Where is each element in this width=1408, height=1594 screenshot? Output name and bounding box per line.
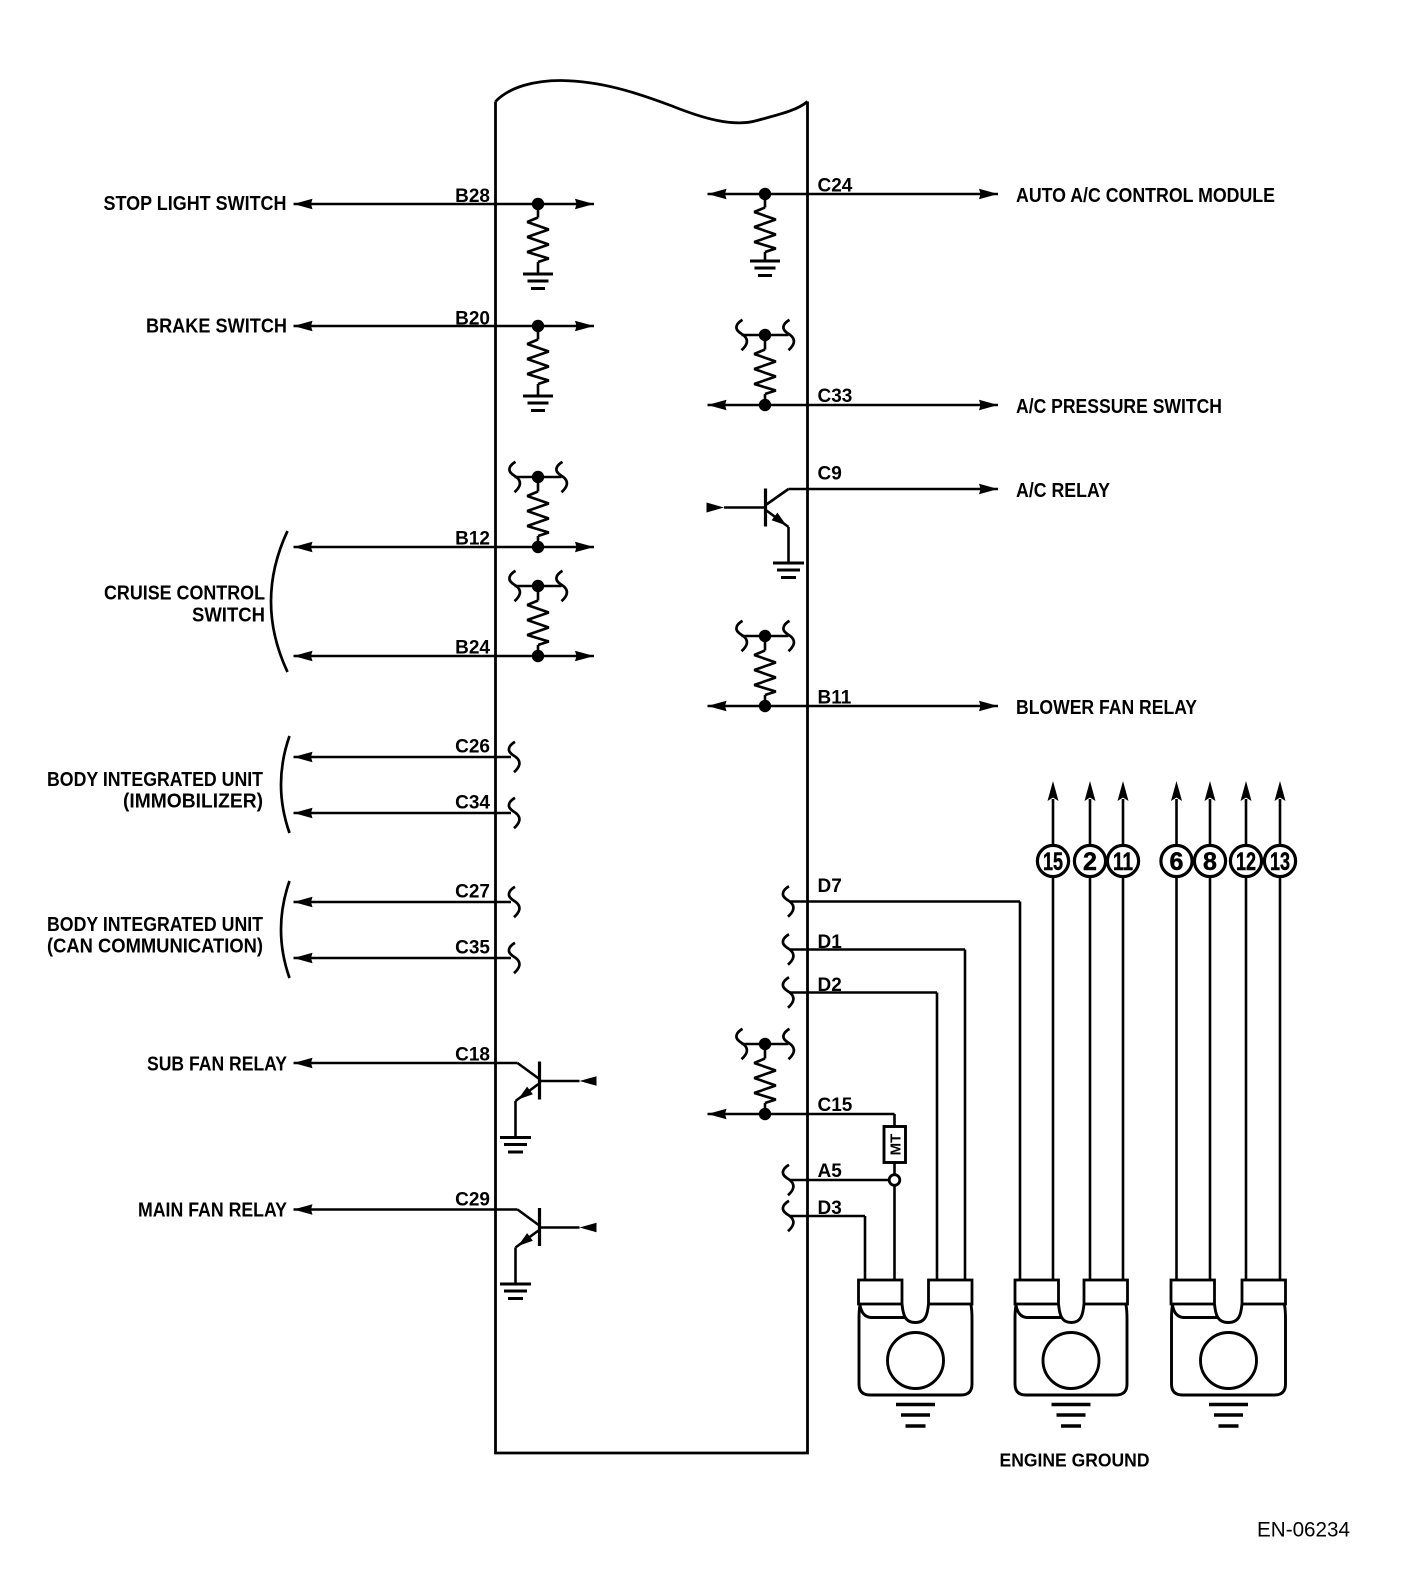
pin label D7 — [818, 876, 842, 897]
pin label C33 — [818, 386, 853, 407]
wire pin C18 (SUB FAN RELAY) — [294, 1058, 518, 1068]
wire pin D3 to engine ground — [790, 1216, 866, 1281]
junction node B28 — [532, 198, 544, 210]
svg-text:C9: C9 — [818, 464, 842, 485]
wire pin C26 — [294, 752, 512, 762]
wire pin C34 — [294, 808, 512, 818]
figure number EN-06234 — [1257, 1519, 1350, 1542]
pin label D1 — [818, 932, 843, 953]
brace immobilizer — [281, 736, 290, 833]
net arrow and circled number 2 — [1074, 781, 1105, 1281]
ECM module boundary box — [496, 81, 808, 1454]
off-page connector pigtail above B24 — [509, 571, 566, 601]
pin label C24 — [818, 176, 853, 197]
brace for cruise control switch — [271, 531, 288, 672]
wire MT box to A5 node — [893, 1163, 896, 1175]
off-page connector pigtail above C33 — [736, 320, 793, 350]
engine ground lug middle: wire terminal caps — [1015, 1280, 1128, 1304]
svg-text:CRUISE CONTROL: CRUISE CONTROL — [104, 583, 265, 605]
ground symbol under lug right — [1209, 1405, 1248, 1427]
svg-text:C29: C29 — [455, 1190, 490, 1211]
pin label B24 — [455, 638, 490, 659]
svg-text:(IMMOBILIZER): (IMMOBILIZER) — [123, 791, 263, 813]
break symbol A5 — [783, 1165, 793, 1195]
wire pin C27 — [294, 897, 512, 907]
svg-text:C18: C18 — [455, 1045, 490, 1066]
pin label C27 — [455, 882, 490, 903]
svg-text:D2: D2 — [818, 975, 842, 996]
label BRAKE SWITCH — [146, 316, 287, 338]
svg-text:A/C RELAY: A/C RELAY — [1016, 480, 1111, 502]
svg-text:B28: B28 — [455, 186, 490, 207]
ground at C9 emitter — [773, 563, 804, 578]
transistor Q-C29 — [515, 1208, 596, 1283]
MT (manual transmission) condition box — [884, 1127, 906, 1163]
svg-text:6: 6 — [1170, 848, 1184, 876]
svg-text:BRAKE SWITCH: BRAKE SWITCH — [146, 316, 287, 338]
svg-text:D1: D1 — [818, 932, 843, 953]
resistor above C15 — [754, 1044, 776, 1114]
svg-text:A/C PRESSURE SWITCH: A/C PRESSURE SWITCH — [1016, 396, 1222, 418]
ground symbol under lug left — [896, 1405, 935, 1427]
resistor above B24 — [527, 586, 549, 656]
wire pin B11 (BLOWER FAN RELAY) — [708, 701, 999, 711]
label BODY INTEGRATED UNIT (IMMOBILIZER) — [47, 769, 263, 813]
label A/C PRESSURE SWITCH — [1016, 396, 1222, 418]
break symbol D1 — [783, 934, 793, 964]
svg-text:ENGINE GROUND: ENGINE GROUND — [1000, 1451, 1150, 1471]
junction node C15 — [759, 1108, 771, 1120]
resistor above C33 — [754, 335, 776, 405]
off-page connector pigtail above C15 — [736, 1029, 793, 1059]
wire pin C29 (MAIN FAN RELAY) — [294, 1204, 518, 1214]
pin label B11 — [818, 688, 852, 709]
label SUB FAN RELAY — [147, 1054, 288, 1076]
engine ground lug left: body — [859, 1304, 972, 1395]
off-page connector pigtail above B12 — [509, 462, 566, 492]
junction node B20 — [532, 320, 544, 332]
junction node B12 — [532, 541, 544, 553]
wire pin B12 (cruise control) — [294, 542, 595, 552]
svg-text:BODY INTEGRATED UNIT: BODY INTEGRATED UNIT — [47, 914, 263, 936]
svg-text:C35: C35 — [455, 938, 490, 959]
pin label B28 — [455, 186, 490, 207]
resistor below B28 — [527, 204, 549, 274]
ground at C18 emitter — [500, 1138, 531, 1153]
engine ground lug left: wire terminal caps — [859, 1280, 973, 1304]
ground at C29 emitter — [500, 1284, 531, 1299]
pin label D2 — [818, 975, 842, 996]
pin label C15 — [818, 1095, 853, 1116]
open junction node A5/MT — [889, 1175, 900, 1186]
svg-text:EN-06234: EN-06234 — [1257, 1519, 1350, 1542]
wire A5 node to engine ground — [893, 1186, 896, 1282]
label MAIN FAN RELAY — [138, 1200, 288, 1222]
label AUTO A/C CONTROL MODULE — [1016, 185, 1275, 207]
svg-text:AUTO A/C CONTROL MODULE: AUTO A/C CONTROL MODULE — [1016, 185, 1275, 207]
net arrow and circled number 12 — [1230, 781, 1261, 1281]
svg-text:BLOWER FAN RELAY: BLOWER FAN RELAY — [1016, 697, 1198, 719]
pin label C26 — [455, 737, 490, 758]
wire pin C35 — [294, 953, 512, 963]
pin label B12 — [455, 529, 490, 550]
pin label C9 — [818, 464, 842, 485]
svg-text:8: 8 — [1203, 848, 1217, 876]
ground below B20 — [523, 396, 553, 411]
svg-text:A5: A5 — [818, 1161, 843, 1182]
off-page connector pigtail above B11 — [736, 621, 793, 651]
svg-text:C27: C27 — [455, 882, 490, 903]
transistor Q-C18 — [515, 1062, 596, 1137]
break symbol C34 — [509, 798, 519, 828]
engine ground lug right: body — [1172, 1304, 1286, 1395]
svg-text:12: 12 — [1236, 848, 1256, 876]
svg-text:B11: B11 — [818, 688, 852, 709]
wire pin C15 — [708, 1109, 895, 1127]
junction node B24 — [532, 650, 544, 662]
break symbol D2 — [783, 977, 793, 1007]
svg-text:D7: D7 — [818, 876, 842, 897]
svg-text:SWITCH: SWITCH — [192, 605, 265, 627]
wire pin D2 to engine ground — [790, 993, 938, 1282]
resistor below C24 — [754, 194, 776, 261]
break symbol C27 — [509, 887, 519, 917]
pin label C34 — [455, 793, 490, 814]
wire pin B20 (BRAKE SWITCH) — [294, 321, 595, 331]
junction node C33 — [759, 399, 771, 411]
net arrow and circled number 15 — [1037, 781, 1068, 1281]
wire pin B28 (STOP LIGHT SWITCH) — [294, 199, 595, 209]
ground below B28 — [523, 274, 553, 289]
svg-text:C33: C33 — [818, 386, 853, 407]
svg-text:D3: D3 — [818, 1198, 842, 1219]
svg-text:2: 2 — [1083, 848, 1097, 876]
wire pin B24 (cruise control) — [294, 651, 595, 661]
wire pin C24 (AUTO A/C CONTROL MODULE) — [708, 189, 999, 199]
brace CAN communication — [281, 881, 290, 978]
junction node B11 — [759, 700, 771, 712]
svg-text:STOP LIGHT SWITCH: STOP LIGHT SWITCH — [104, 193, 287, 215]
net arrow and circled number 6 — [1161, 781, 1192, 1281]
pin label D3 — [818, 1198, 842, 1219]
svg-text:MT: MT — [888, 1134, 905, 1156]
svg-text:B20: B20 — [455, 309, 490, 330]
svg-text:13: 13 — [1270, 848, 1290, 876]
svg-text:MAIN FAN RELAY: MAIN FAN RELAY — [138, 1200, 288, 1222]
net arrow and circled number 11 — [1107, 781, 1138, 1281]
label ENGINE GROUND — [1000, 1451, 1150, 1471]
svg-text:C24: C24 — [818, 176, 853, 197]
svg-text:SUB FAN RELAY: SUB FAN RELAY — [147, 1054, 288, 1076]
net arrow and circled number 8 — [1194, 781, 1225, 1281]
pin label A5 — [818, 1161, 843, 1182]
wire pin C9 (A/C RELAY) — [789, 484, 999, 494]
wire pin C33 (A/C PRESSURE SWITCH) — [708, 400, 999, 410]
svg-text:B12: B12 — [455, 529, 490, 550]
svg-text:C34: C34 — [455, 793, 490, 814]
break symbol C26 — [509, 742, 519, 772]
engine ground lug right: wire terminal caps — [1171, 1280, 1286, 1304]
break symbol D3 — [783, 1201, 793, 1231]
ground symbol under lug middle — [1052, 1405, 1091, 1427]
pin label C29 — [455, 1190, 490, 1211]
label CRUISE CONTROL SWITCH — [104, 583, 265, 627]
break symbol C35 — [509, 943, 519, 973]
svg-text:B24: B24 — [455, 638, 490, 659]
svg-text:15: 15 — [1043, 848, 1063, 876]
break symbol D7 — [783, 886, 793, 916]
label BLOWER FAN RELAY — [1016, 697, 1198, 719]
wire pin A5 — [790, 1179, 890, 1182]
pin label C18 — [455, 1045, 490, 1066]
wire pin D1 to engine ground — [790, 950, 966, 1282]
label STOP LIGHT SWITCH — [104, 193, 287, 215]
resistor above B11 — [754, 636, 776, 706]
svg-text:11: 11 — [1113, 848, 1133, 876]
net arrow and circled number 13 — [1264, 781, 1295, 1281]
wire pin D7 to engine ground — [790, 902, 1021, 1282]
svg-text:C26: C26 — [455, 737, 490, 758]
transistor Q-C9 — [707, 489, 790, 563]
label A/C RELAY — [1016, 480, 1111, 502]
svg-text:C15: C15 — [818, 1095, 853, 1116]
svg-text:BODY INTEGRATED UNIT: BODY INTEGRATED UNIT — [47, 769, 263, 791]
pin label B20 — [455, 309, 490, 330]
ground below C24 — [750, 261, 780, 276]
engine ground lug middle: body — [1015, 1304, 1127, 1395]
label BODY INTEGRATED UNIT (CAN COMMUNICATION) — [47, 914, 263, 958]
resistor below B20 — [527, 326, 549, 396]
pin label C35 — [455, 938, 490, 959]
resistor above B12 — [527, 477, 549, 547]
junction node C24 — [759, 188, 771, 200]
svg-text:(CAN COMMUNICATION): (CAN COMMUNICATION) — [47, 936, 263, 958]
